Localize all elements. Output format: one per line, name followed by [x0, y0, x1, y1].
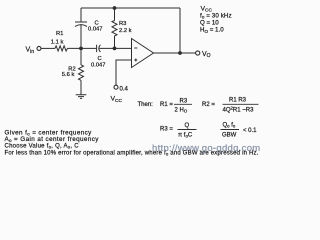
svg-text:R1 =: R1 =	[160, 102, 173, 108]
svg-text:0.047: 0.047	[91, 62, 106, 68]
ground	[76, 95, 87, 99]
svg-text:Choose Value fo, Q, Ao, C: Choose Value fo, Q, Ao, C	[5, 144, 80, 150]
resistor R1	[55, 46, 68, 51]
resistor R3	[112, 21, 117, 37]
svg-text:0.4: 0.4	[120, 86, 129, 92]
junction node top rail / R3	[113, 6, 117, 10]
formula Q limit fraction bar	[221, 129, 240, 131]
svg-text:HO = 1.0: HO = 1.0	[200, 27, 224, 34]
svg-text:4Q2R1 −R3: 4Q2R1 −R3	[223, 106, 255, 114]
svg-text:R1: R1	[56, 31, 63, 37]
svg-text:VO: VO	[202, 51, 211, 59]
svg-text:Ao = Gain at center frequency: Ao = Gain at center frequency	[5, 136, 100, 143]
svg-text:R2 =: R2 =	[202, 102, 215, 108]
op-amp plus sign	[134, 59, 137, 62]
svg-text:VCC: VCC	[111, 96, 123, 104]
svg-text:R3 =: R3 =	[160, 127, 173, 133]
wire top feedback rail	[81, 7, 180, 9]
svg-text:R1 R3: R1 R3	[229, 98, 247, 104]
formula R1 fraction bar	[174, 103, 192, 105]
input terminal Vin	[37, 46, 41, 50]
wire C1 to top rail	[80, 8, 82, 22]
formula R2 fraction bar	[223, 103, 259, 105]
op-amp minus sign	[134, 47, 137, 49]
svg-text:Qo fo: Qo fo	[223, 123, 236, 129]
bias terminal circle	[114, 85, 118, 89]
svg-text:Then:: Then:	[138, 102, 154, 108]
svg-text:0.047: 0.047	[88, 27, 103, 33]
svg-text:C: C	[98, 56, 102, 62]
wire top rail down to output node	[179, 8, 181, 53]
wire R2 to ground	[80, 80, 82, 95]
svg-text:Vin: Vin	[26, 47, 35, 55]
wire node A up to C1	[80, 24, 82, 48]
svg-text:< 0.1: < 0.1	[243, 128, 257, 134]
svg-text:R3: R3	[180, 99, 188, 105]
wire R3 upper	[114, 8, 116, 21]
resistor R2	[79, 65, 84, 81]
svg-text:5.6 k: 5.6 k	[62, 72, 75, 78]
svg-text:R3: R3	[119, 21, 126, 27]
capacitor C1 (feedback cap)	[75, 22, 87, 26]
op-amp U1	[132, 39, 154, 68]
svg-text:2.2 k: 2.2 k	[119, 28, 132, 34]
formula R3 fraction bar	[178, 129, 197, 131]
svg-text:1.1 k: 1.1 k	[51, 40, 64, 46]
svg-text:C: C	[95, 21, 99, 27]
svg-text:Q: Q	[185, 123, 190, 129]
wire op-amp output	[154, 52, 196, 54]
junction node output	[178, 51, 182, 55]
wire R3 lower	[114, 36, 116, 48]
wire Vin to R1	[41, 47, 55, 49]
svg-text:Q = 10: Q = 10	[200, 19, 219, 26]
svg-text:http://www.go-gddq.com: http://www.go-gddq.com	[152, 143, 261, 154]
wire R1 to node A	[68, 47, 97, 49]
wire R2 upper	[80, 48, 82, 65]
wire noninverting input to bias terminal	[116, 60, 132, 86]
wire C2 to inverting input	[99, 47, 131, 49]
junction node inverting input / R3	[113, 47, 117, 51]
svg-text:π foC: π foC	[178, 133, 193, 139]
capacitor C2 (series input cap)	[97, 45, 101, 52]
junction node A	[79, 47, 83, 51]
svg-text:GBW: GBW	[222, 133, 237, 139]
output terminal Vo	[196, 51, 200, 55]
svg-text:2 HO: 2 HO	[175, 108, 188, 114]
